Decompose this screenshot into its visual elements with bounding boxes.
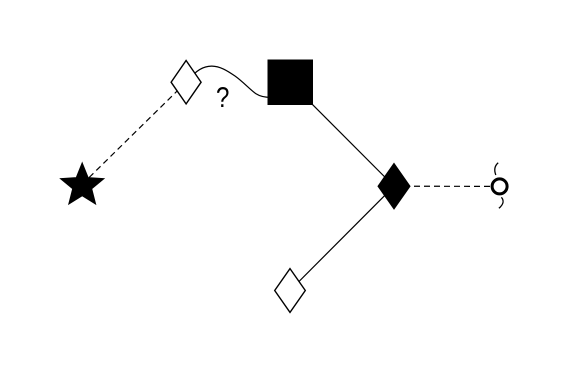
wire: bond from black square to black diamond	[290, 82, 394, 186]
reducing end circle	[492, 179, 507, 194]
wire: dashed bond from black diamond to reducing end	[394, 185, 500, 187]
reducing end squiggle top	[495, 163, 498, 175]
open diamond D1	[171, 61, 201, 104]
black square	[268, 60, 314, 106]
label ? (question mark glyph)	[217, 87, 229, 107]
wire: curved unknown bond from D1 to black square	[189, 66, 272, 97]
open diamond D2	[275, 269, 306, 313]
wire: bond from black diamond to open diamond D2	[290, 186, 394, 290]
reducing end squiggle bottom	[499, 197, 503, 208]
wire: dashed bond from star to open diamond D1	[82, 82, 186, 184]
star (filled)	[61, 163, 104, 204]
black diamond	[378, 163, 410, 209]
